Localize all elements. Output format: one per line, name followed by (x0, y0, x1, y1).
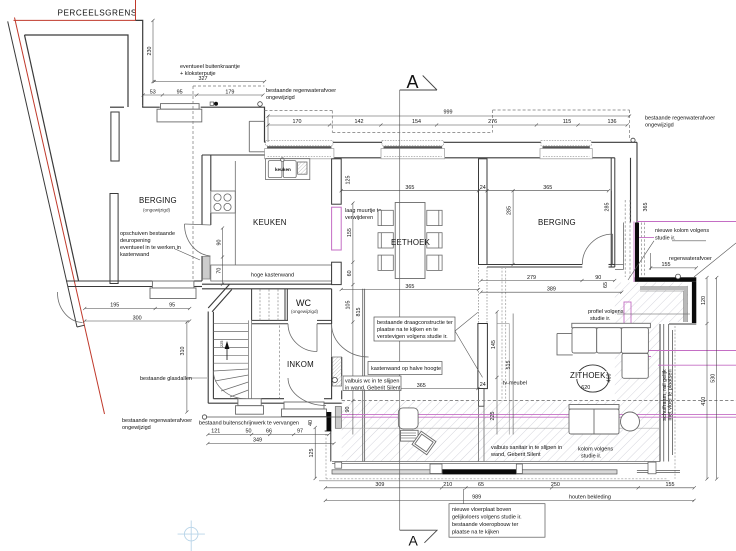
perceelsgrens red boundary (14, 0, 136, 414)
dim 365 eethoek bottom (340, 288, 481, 291)
svg-text:120: 120 (701, 296, 707, 305)
svg-text:276: 276 (488, 119, 497, 125)
svg-text:bestaande draagconstructie ter: bestaande draagconstructie ter (377, 320, 453, 326)
stairs winders (213, 369, 248, 399)
magenta rails (341, 222, 736, 418)
svg-text:+ kloksterputje: + kloksterputje (180, 71, 216, 77)
facade lower segment right (637, 470, 680, 472)
inkom east wall (332, 289, 342, 400)
svg-text:250: 250 (551, 482, 560, 488)
box nieuwe vloerplaat (449, 504, 545, 538)
barn door arc (57, 292, 82, 323)
keuken east wall (332, 159, 342, 285)
outdoor tap (210, 102, 214, 105)
dashed courtyard lines (193, 86, 265, 281)
wc walls (252, 289, 332, 324)
svg-text:houten bekleding: houten bekleding (569, 494, 611, 500)
bottom outer line (319, 480, 670, 482)
svg-text:ongewijzigd: ongewijzigd (645, 123, 674, 129)
dim 310 (185, 320, 188, 413)
dashed old wall trace zithoek (502, 267, 506, 401)
keuken-inkom wall (202, 284, 332, 289)
courtyard inner corner (249, 121, 264, 152)
dim 145 (495, 310, 498, 379)
svg-text:66: 66 (266, 428, 272, 434)
svg-text:365: 365 (643, 203, 649, 212)
svg-text:90: 90 (345, 407, 351, 413)
dashed old facade line (342, 400, 736, 402)
east sliding door frame (664, 324, 673, 462)
svg-text:365: 365 (405, 284, 414, 290)
kitchen sink unit (266, 158, 310, 180)
svg-text:plaatse na te kijken: plaatse na te kijken (452, 530, 499, 536)
front door sill (282, 402, 327, 417)
svg-text:opschuiven bestaande: opschuiven bestaande (120, 231, 175, 237)
svg-text:999: 999 (444, 110, 453, 116)
svg-text:wand, Geberit Silent: wand, Geberit Silent (490, 452, 541, 458)
bottom facade lines (332, 462, 660, 464)
svg-text:ongewijzigd: ongewijzigd (266, 95, 295, 101)
svg-text:90: 90 (217, 240, 223, 246)
svg-text:ZITHOEK: ZITHOEK (570, 371, 606, 380)
crosshair (178, 521, 205, 551)
dim 999 (266, 114, 631, 117)
svg-text:eventueel in te werken in: eventueel in te werken in (120, 245, 181, 251)
svg-text:365: 365 (405, 185, 414, 191)
rainwater pipe (258, 102, 263, 107)
keuken west wall (202, 155, 265, 281)
svg-text:365: 365 (417, 383, 426, 389)
svg-text:170: 170 (293, 119, 302, 125)
svg-text:(ongewijzigd): (ongewijzigd) (291, 309, 319, 314)
window eethoek (381, 140, 445, 158)
facade frame marks (335, 462, 656, 474)
svg-text:155: 155 (666, 482, 675, 488)
svg-text:deuropening: deuropening (120, 238, 151, 244)
inkom east door arc (332, 324, 369, 357)
svg-text:kastenwand: kastenwand (120, 252, 149, 258)
rainwater circle NE corner (631, 138, 635, 142)
svg-text:989: 989 (472, 494, 481, 500)
svg-text:95: 95 (169, 302, 175, 308)
svg-text:bestaande regenwaterafvoer: bestaande regenwaterafvoer (645, 116, 715, 122)
svg-text:285: 285 (507, 206, 513, 215)
new beam (thick black horizontal) (635, 277, 697, 282)
svg-text:230: 230 (147, 47, 153, 56)
svg-text:kastenwand op halve hoogte: kastenwand op halve hoogte (371, 366, 441, 372)
wc door arc (288, 324, 317, 352)
house north wall (265, 142, 638, 158)
dim 170-136 (266, 123, 628, 126)
dashed shaft lines (625, 200, 644, 277)
black door post SW (327, 412, 332, 431)
svg-text:nieuwe kolom volgens: nieuwe kolom volgens (655, 228, 709, 234)
svg-text:bestaande regenwaterafvoer: bestaande regenwaterafvoer (122, 418, 192, 424)
stairs arrow (225, 341, 230, 349)
svg-text:in wand, Geberit Silent: in wand, Geberit Silent (345, 386, 401, 392)
svg-text:studie ir.: studie ir. (590, 316, 611, 322)
dim 515/225 (512, 314, 514, 435)
dashed inkom line (279, 326, 281, 399)
west wall stairs (208, 284, 232, 403)
barn bottom wall (66, 281, 202, 287)
svg-text:BERGING: BERGING (139, 196, 177, 205)
note glasdallen (188, 377, 207, 379)
svg-text:tv-meubel: tv-meubel (503, 381, 527, 387)
dashed roof overhang lines (265, 110, 630, 140)
dim 125/155/60 keuken (351, 202, 354, 287)
dim 125 sw (314, 426, 317, 480)
svg-text:300: 300 (133, 316, 142, 322)
box kastenwand (368, 362, 442, 375)
armchair (398, 408, 418, 441)
svg-text:210: 210 (443, 482, 452, 488)
svg-text:195: 195 (110, 302, 119, 308)
window keuken (265, 140, 334, 158)
facade wall band (332, 470, 617, 474)
svg-text:70: 70 (217, 268, 223, 274)
svg-text:90: 90 (595, 275, 601, 281)
svg-text:125: 125 (346, 176, 352, 185)
svg-text:65: 65 (478, 482, 484, 488)
dim 389 (479, 291, 623, 294)
niche east shaft (615, 223, 624, 270)
svg-text:179: 179 (225, 90, 234, 96)
svg-text:valbuis wc in te slijpen: valbuis wc in te slijpen (345, 379, 399, 385)
svg-text:24: 24 (480, 185, 486, 191)
svg-text:145: 145 (491, 340, 497, 349)
svg-text:nieuwe vloerplaat boven: nieuwe vloerplaat boven (452, 507, 511, 513)
svg-text:50: 50 (246, 428, 252, 434)
column eethoek/zithoek (478, 324, 488, 389)
corner step walls (660, 324, 696, 462)
svg-text:410: 410 (701, 397, 707, 406)
svg-text:studie ir.: studie ir. (581, 454, 602, 460)
svg-text:155: 155 (662, 262, 671, 268)
svg-text:105: 105 (345, 301, 351, 310)
window sill south (236, 399, 264, 415)
dim 53/95/179 (142, 93, 265, 96)
sofa L (557, 323, 650, 378)
gray line y428 (341, 427, 660, 429)
svg-text:530: 530 (711, 374, 717, 383)
chimney block (157, 104, 202, 122)
svg-text:115: 115 (563, 119, 572, 125)
barn walls (25, 35, 129, 281)
box valbuis wc (343, 376, 401, 391)
front door arc (288, 378, 326, 406)
svg-text:815: 815 (356, 308, 362, 317)
svg-text:bestaande glasdallen: bestaande glasdallen (140, 376, 192, 382)
barn inner pier wall (110, 112, 119, 284)
new column east (thick black) (635, 223, 639, 279)
svg-text:KEUKEN: KEUKEN (253, 218, 287, 227)
new corner column SE (thick black) (692, 282, 696, 323)
dim 349 (206, 442, 335, 445)
laag muurtje magenta (332, 207, 342, 250)
svg-text:keuken: keuken (275, 167, 291, 172)
dim 195/95 + 300 (83, 307, 191, 310)
svg-text:A: A (407, 72, 419, 92)
svg-text:97: 97 (297, 428, 303, 434)
svg-text:620: 620 (581, 385, 590, 391)
section line (399, 90, 401, 530)
svg-text:WC: WC (296, 298, 311, 308)
svg-text:plaatse na te kijken en te: plaatse na te kijken en te (377, 327, 438, 333)
svg-text:PERCEELSGRENS: PERCEELSGRENS (58, 9, 137, 18)
keuken west door leaf (203, 257, 211, 280)
sofa 2 bottom (569, 405, 619, 435)
svg-text:155: 155 (347, 228, 353, 237)
berging door leaf+arc (612, 234, 614, 264)
svg-text:121: 121 (211, 428, 220, 434)
svg-text:gelijkvloers volgens studie ir: gelijkvloers volgens studie ir. (452, 515, 522, 521)
svg-text:65: 65 (603, 282, 609, 288)
cooktop (211, 161, 236, 265)
svg-text:365: 365 (543, 185, 552, 191)
sliding door threshold black (442, 469, 516, 474)
new wall hatched band (332, 357, 341, 386)
svg-text:389: 389 (547, 287, 556, 293)
svg-text:INKOM: INKOM (287, 360, 314, 369)
dim 365/24 y388.5 (363, 387, 480, 390)
berging west wall (479, 159, 488, 265)
dining table (395, 203, 425, 279)
insulation gray bands (640, 289, 686, 323)
svg-text:ongewijzigd: ongewijzigd (122, 425, 151, 431)
dim 285 right (611, 191, 613, 265)
svg-text:460: 460 (607, 374, 613, 383)
dim 121/50/66/97 (206, 433, 330, 436)
right dims (649, 266, 698, 269)
svg-text:154: 154 (412, 119, 421, 125)
sw terrace corner wall (325, 431, 332, 462)
barn window sill (150, 281, 196, 299)
dim 327 (153, 80, 267, 83)
svg-text:bestaand buitenschrijnwerk te: bestaand buitenschrijnwerk te vervangen (199, 421, 299, 427)
box draagconstructie (374, 317, 455, 341)
stairs upper flight dashed treads (260, 290, 278, 321)
svg-text:40: 40 (308, 420, 314, 426)
room label ZITHOEK + circle (577, 365, 609, 392)
side table circle (621, 412, 640, 431)
svg-text:(ongewijzigd): (ongewijzigd) (143, 208, 171, 213)
svg-text:verwijderen: verwijderen (345, 215, 373, 221)
ground line front door (206, 416, 341, 418)
svg-text:142: 142 (355, 119, 364, 125)
svg-text:285: 285 (605, 203, 611, 212)
svg-text:60: 60 (347, 270, 353, 276)
dim 285 left (512, 189, 515, 266)
svg-text:bestaande vloeropbouw ter: bestaande vloeropbouw ter (452, 522, 519, 528)
svg-text:bestaande regenwaterafvoer: bestaande regenwaterafvoer (266, 88, 336, 94)
berging south wall + door (487, 265, 615, 268)
hatched new floor bottom band (342, 401, 660, 462)
boundary wall to chimney (110, 20, 265, 142)
svg-text:met vloer te plaatsen: met vloer te plaatsen (667, 369, 673, 420)
svg-text:valbuis sanitair in te slijpen: valbuis sanitair in te slijpen in (491, 445, 562, 451)
kastenwand halfhigh line (363, 289, 365, 462)
hoge kastenwand cabinet (211, 265, 332, 281)
svg-text:309: 309 (375, 482, 384, 488)
dim 279/90 (479, 279, 616, 282)
east outer dotted edge (674, 326, 676, 479)
svg-text:kolom volgens: kolom volgens (578, 447, 613, 453)
svg-text:125: 125 (309, 448, 315, 457)
svg-text:279: 279 (527, 275, 536, 281)
bottom dims (324, 486, 696, 489)
dotted terrace edge (326, 434, 668, 479)
stairs lower flight treads (213, 320, 251, 398)
berging east wall (611, 158, 615, 267)
svg-text:95: 95 (177, 90, 183, 96)
svg-text:A: A (409, 533, 419, 549)
tilted side table (412, 431, 436, 454)
svg-text:eventueel buitenkraantje: eventueel buitenkraantje (180, 64, 240, 70)
chairs right (427, 210, 442, 270)
svg-text:BERGING: BERGING (538, 218, 576, 227)
section marker A bottom (400, 530, 438, 549)
inkom south wall (208, 399, 342, 404)
svg-text:349: 349 (253, 438, 262, 444)
svg-text:225: 225 (220, 341, 224, 347)
chairs left (378, 210, 393, 270)
svg-text:regenwaterafvoer: regenwaterafvoer (669, 256, 712, 262)
window berging (540, 140, 592, 158)
dim 90/70 left (221, 226, 224, 285)
house east wall (631, 142, 638, 222)
dim 365/24/365 (340, 189, 610, 192)
wall trace dotted (479, 267, 488, 324)
section marker A top (400, 72, 437, 92)
dim 230 (151, 19, 154, 83)
gray door leaf SW (335, 407, 341, 429)
svg-text:EETHOEK: EETHOEK (391, 238, 431, 247)
svg-text:310: 310 (180, 347, 186, 356)
svg-text:24: 24 (480, 382, 486, 388)
svg-text:53: 53 (150, 90, 156, 96)
boundary wall diagonal (8, 21, 85, 327)
svg-text:verstevigen volgens studie ir.: verstevigen volgens studie ir. (377, 334, 448, 340)
hatched east strip + corner pocket (615, 283, 688, 401)
svg-text:laag muurtje te: laag muurtje te (345, 208, 381, 214)
svg-text:136: 136 (608, 119, 617, 125)
circle on wall (332, 377, 337, 382)
svg-text:225: 225 (490, 412, 496, 421)
svg-text:hoge kastenwand: hoge kastenwand (251, 273, 294, 279)
